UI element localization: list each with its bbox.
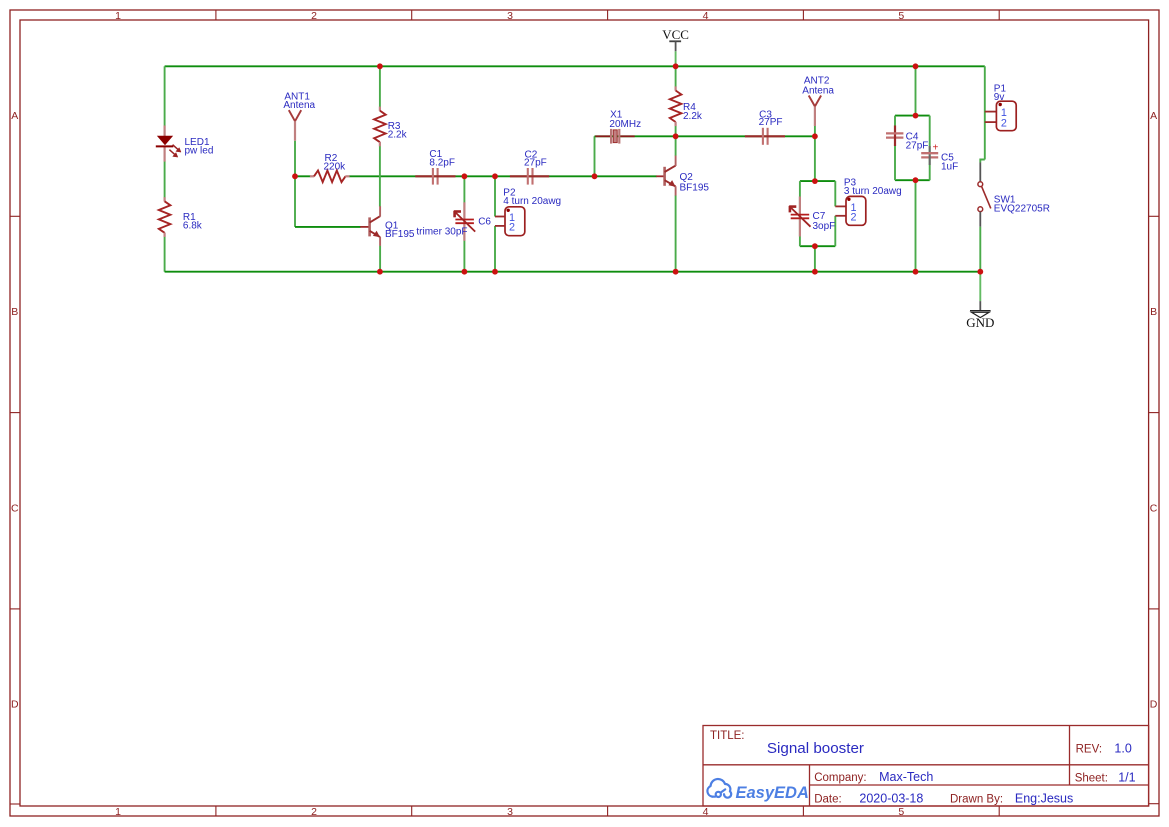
svg-text:1.0: 1.0 [1114, 742, 1131, 756]
svg-text:Drawn By:: Drawn By: [950, 794, 1003, 806]
wire: X1 row horizontal [595, 135, 676, 137]
node: mid rail ANT1 [292, 173, 298, 179]
wire: C6 branch vertical [463, 176, 465, 271]
svg-text:TITLE:: TITLE: [710, 730, 745, 742]
node: bottom rail Q1 [377, 269, 383, 275]
wire: Q1 base horizontal [295, 226, 361, 228]
node: C3/ANT2 [812, 133, 818, 139]
svg-text:BF195: BF195 [385, 229, 415, 240]
svg-text:D: D [11, 699, 19, 711]
svg-text:1/1: 1/1 [1118, 771, 1135, 785]
capacitor C3 [745, 110, 785, 145]
svg-text:BF195: BF195 [680, 183, 710, 194]
trimmer capacitor C6 [416, 202, 491, 241]
svg-text:Q2: Q2 [680, 172, 694, 183]
svg-text:2: 2 [311, 10, 317, 22]
wire: Q1 emitter vertical [379, 246, 381, 272]
svg-text:1: 1 [115, 806, 121, 818]
capacitor C1 [415, 149, 455, 185]
svg-text:27pF: 27pF [524, 157, 547, 168]
resistor R2 [310, 153, 350, 182]
wire: ANT2 vertical [814, 126, 816, 181]
node: mid rail X1 [592, 173, 598, 179]
wire: P2 branch vertical [494, 176, 496, 216]
svg-text:Max-Tech: Max-Tech [879, 770, 933, 784]
svg-text:20MHz: 20MHz [609, 119, 641, 130]
svg-text:8.2pF: 8.2pF [429, 157, 455, 168]
svg-text:1uF: 1uF [941, 162, 958, 173]
node: bottom rail C4 [913, 269, 919, 275]
switch SW1 [978, 163, 1050, 227]
svg-text:pw led: pw led [185, 146, 214, 157]
svg-text:Eng:Jesus: Eng:Jesus [1015, 792, 1073, 806]
svg-text:C: C [1150, 502, 1158, 514]
resistor R4 [670, 86, 703, 126]
svg-text:D: D [1150, 699, 1158, 711]
node: bottom rail GND [977, 269, 983, 275]
svg-text:27pF: 27pF [906, 141, 929, 152]
node: mid rail P2 [492, 173, 498, 179]
svg-text:2: 2 [851, 212, 857, 224]
node: X1/R4 [673, 133, 679, 139]
svg-text:A: A [1150, 110, 1157, 122]
wire: P3/C7 loop [800, 180, 835, 182]
svg-text:Company:: Company: [814, 772, 866, 784]
connector P2 [495, 187, 561, 235]
wire: X1 left vertical [594, 136, 596, 176]
svg-text:220k: 220k [324, 162, 347, 173]
wire: mid signal rail [295, 175, 311, 177]
svg-text:EasyEDA: EasyEDA [736, 784, 809, 802]
node: bottom rail P3 [812, 269, 818, 275]
node: mid rail C6 [462, 173, 468, 179]
connector P1 [985, 84, 1016, 131]
LED1 pin stubs [164, 126, 166, 137]
svg-text:3: 3 [507, 10, 513, 22]
capacitor C2 [510, 150, 549, 185]
wire: VCC/R4/Q2 vertical [675, 51, 677, 66]
svg-text:Antena: Antena [283, 100, 315, 111]
svg-text:trimer 30pF: trimer 30pF [416, 227, 467, 238]
node: bottom rail P2 [492, 269, 498, 275]
svg-text:2: 2 [509, 222, 515, 234]
node: P3 loop bottom [812, 243, 818, 249]
wire: bottom rail GND net [165, 271, 981, 273]
EasyEDA logo [707, 779, 731, 798]
wire: C3 row horizontal [676, 135, 815, 137]
node: top rail C4 branch [913, 63, 919, 69]
wire: left rail vertical (LED/R1 branch) [164, 66, 166, 126]
transistor Q2 BF195 [656, 156, 709, 196]
svg-text:2020-03-18: 2020-03-18 [859, 792, 923, 806]
svg-text:2: 2 [1001, 117, 1007, 129]
svg-text:2.2k: 2.2k [683, 111, 703, 122]
svg-text:2: 2 [311, 806, 317, 818]
svg-text:9v: 9v [994, 92, 1005, 103]
node: P3 loop top [812, 178, 818, 184]
svg-text:2.2k: 2.2k [388, 130, 408, 141]
svg-text:3 turn 20awg: 3 turn 20awg [844, 186, 902, 197]
svg-text:B: B [1150, 306, 1157, 318]
svg-text:Date:: Date: [814, 794, 842, 806]
resistor R1 [159, 197, 203, 237]
trimmer capacitor C7 [789, 197, 835, 237]
LED1 pw led [156, 136, 214, 157]
connector P3 [835, 178, 901, 226]
wire: SW1 lower vertical [979, 227, 981, 272]
svg-text:3opF: 3opF [813, 221, 836, 232]
svg-text:6.8k: 6.8k [183, 220, 203, 231]
svg-text:Signal booster: Signal booster [767, 740, 864, 757]
svg-text:Sheet:: Sheet: [1075, 773, 1108, 785]
wire: R3 / Q1 collector vertical [379, 66, 381, 107]
node: bottom rail C6 [462, 269, 468, 275]
svg-text:1: 1 [115, 10, 121, 22]
crystal X1 [595, 110, 641, 144]
svg-text:27PF: 27PF [759, 117, 783, 128]
wire: C4/C5 loop [915, 66, 917, 115]
svg-text:4: 4 [703, 806, 709, 818]
svg-text:+: + [933, 143, 939, 154]
transistor Q1 BF195 [360, 206, 415, 246]
svg-text:Antena: Antena [802, 86, 834, 97]
node: C4 loop top [913, 113, 919, 119]
svg-text:REV:: REV: [1076, 744, 1102, 756]
wire: Q2 emitter vertical [675, 195, 677, 271]
frame row ticks [10, 215, 20, 217]
svg-text:GND: GND [966, 315, 994, 330]
svg-text:C: C [11, 502, 19, 514]
resistor R3 [374, 107, 408, 147]
svg-text:4 turn 20awg: 4 turn 20awg [503, 196, 561, 207]
node: top rail VCC [673, 63, 679, 69]
GND net flag [966, 301, 994, 330]
antenna ANT1 [283, 91, 315, 140]
svg-text:EVQ22705R: EVQ22705R [994, 204, 1050, 215]
node: top rail R3 [377, 63, 383, 69]
node: bottom rail Q2 [673, 269, 679, 275]
wire: P1 branch vertical [984, 66, 986, 159]
svg-text:B: B [11, 306, 18, 318]
svg-text:5: 5 [898, 10, 904, 22]
svg-text:C6: C6 [478, 217, 491, 228]
wire: ANT1 vertical [294, 141, 296, 227]
wire: top rail VCC net [165, 65, 985, 67]
VCC net flag [662, 27, 689, 51]
svg-text:VCC: VCC [662, 27, 689, 42]
wire: GND drop [979, 272, 981, 301]
capacitor C4 [886, 126, 928, 152]
svg-text:5: 5 [898, 806, 904, 818]
node: C4 loop bottom [913, 177, 919, 183]
antenna ANT2 [802, 76, 834, 126]
polarized capacitor C5 [921, 143, 958, 173]
svg-text:3: 3 [507, 806, 513, 818]
svg-text:A: A [11, 110, 18, 122]
svg-text:4: 4 [703, 10, 709, 22]
